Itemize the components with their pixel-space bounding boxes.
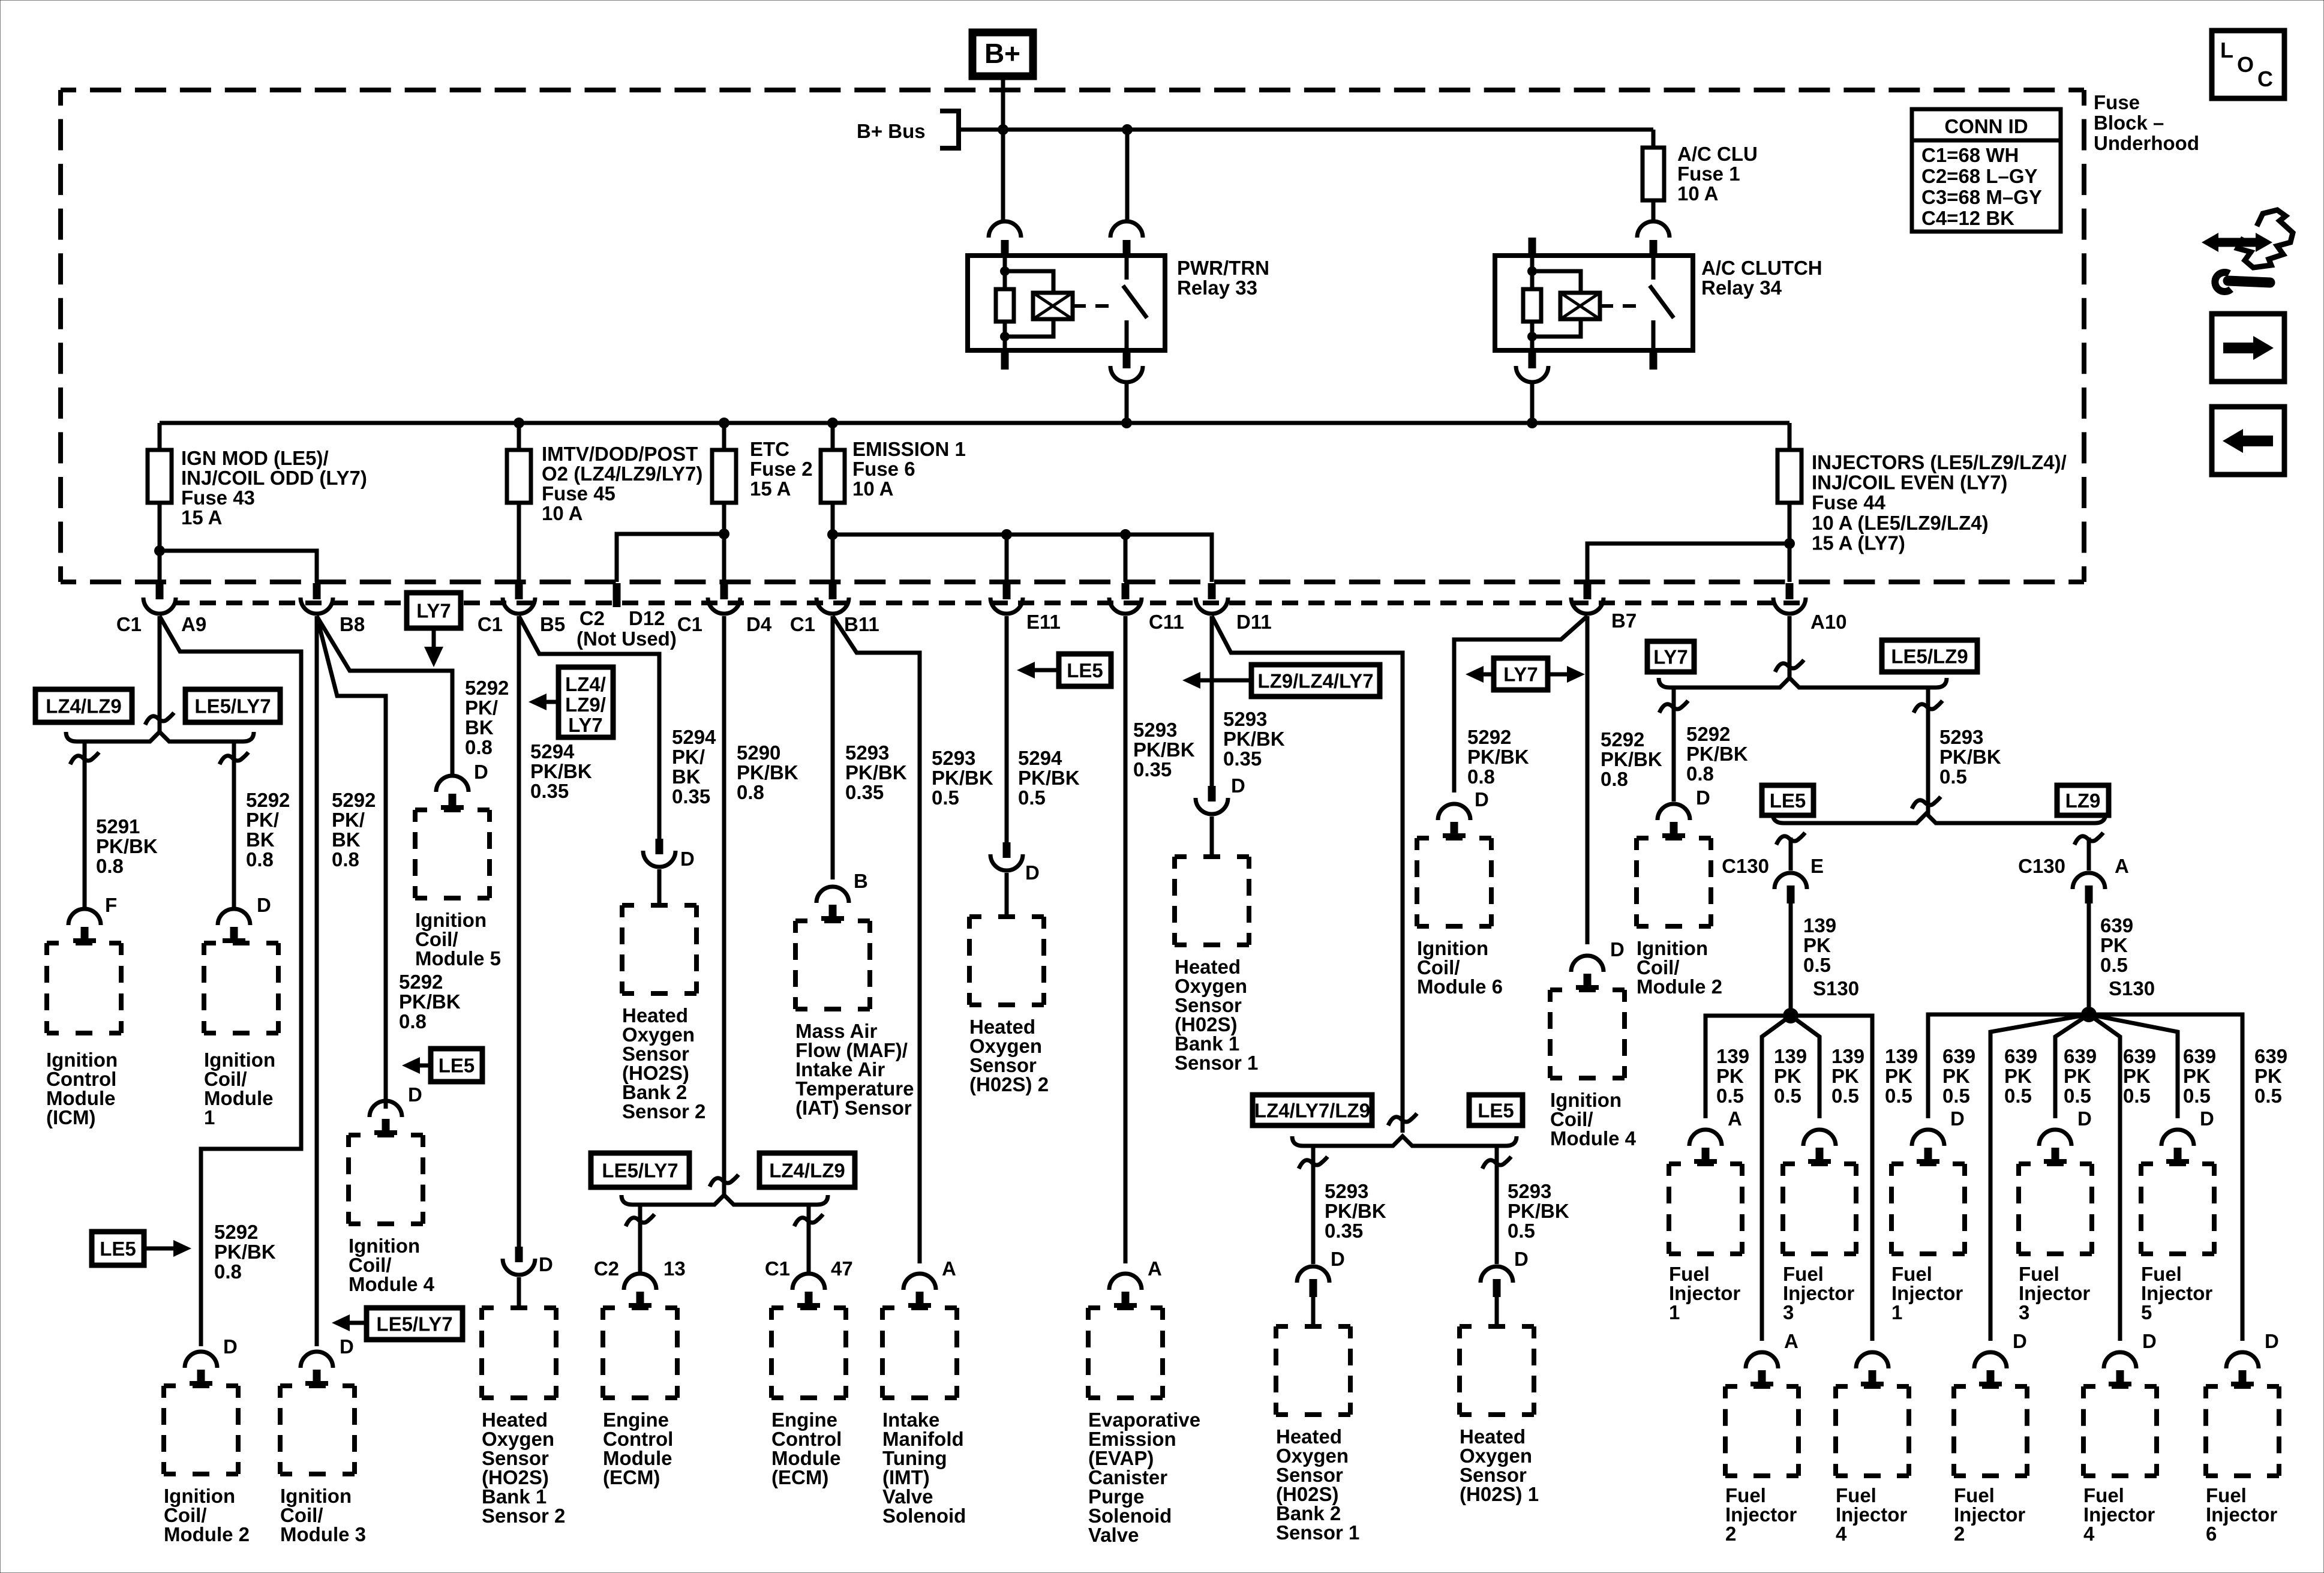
- svg-text:D12: D12: [629, 607, 665, 629]
- label: fuse 43: [181, 447, 367, 529]
- svg-text:A: A: [1784, 1330, 1798, 1352]
- junction: fuse 44 output: [1784, 538, 1795, 549]
- inline connector: HO2S 2 D: [990, 842, 1023, 917]
- wire: B8 to coil module 4 left: [317, 616, 386, 1109]
- svg-text:0.35: 0.35: [530, 780, 569, 802]
- svg-text:139: 139: [1831, 1045, 1864, 1067]
- component box: HO2S Bank 1 Sensor 1: [1175, 857, 1249, 945]
- svg-text:10 A: 10 A: [542, 502, 582, 524]
- label: Intake Manifold Tuning (IMT) Valve Solenoid: [882, 1409, 966, 1527]
- tag: LZ9/LZ4/LY7 arrow left: [1182, 665, 1380, 697]
- component: Fuel Injector 4 bottom row (LZ9 bank): [2083, 1330, 2157, 1545]
- relay 34 switch output stub: [1650, 352, 1658, 370]
- label: 639 PK 0.5 (inj1): [1942, 1045, 1975, 1107]
- label: Heated Oxygen Sensor (HO2S) Bank 2 Sensor 2: [622, 1004, 705, 1122]
- fuse block connector pin at x=528: [301, 583, 333, 614]
- wire: HO2S B2S1 branch: [1299, 1148, 1328, 1264]
- wire: B7 to coil module 4 right: [1586, 616, 1590, 944]
- label: Ignition Control Module (ICM): [46, 1049, 118, 1128]
- label: 639 PK 0.5 (inj6): [2254, 1045, 2287, 1107]
- svg-text:L: L: [2220, 38, 2233, 62]
- svg-text:0.5: 0.5: [2100, 954, 2128, 976]
- fuse block connector pin at x=1678: [990, 583, 1023, 614]
- svg-text:5293: 5293: [845, 742, 889, 764]
- svg-text:A: A: [2115, 855, 2129, 877]
- svg-text:B11: B11: [844, 613, 879, 635]
- brace: HO2S bank2/1 split: [1292, 1136, 1517, 1146]
- wire: splice right to fuel injector 1 (LZ9): [1928, 1014, 2089, 1118]
- label: S130 (right): [2109, 977, 2155, 999]
- inline connector: C130 E: [1774, 873, 1807, 1008]
- label: 5293 PK/BK 0.5 (injector feed): [1939, 726, 2001, 788]
- svg-text:LE5/LY7: LE5/LY7: [194, 695, 271, 718]
- label: pin D (H02S 1): [1514, 1248, 1529, 1270]
- svg-text:Module 6: Module 6: [1417, 975, 1503, 998]
- svg-text:D: D: [539, 1253, 553, 1275]
- svg-text:PK: PK: [2100, 934, 2128, 956]
- component box: HO2S 2: [969, 917, 1044, 1005]
- label: 639 PK 0.5 (inj4): [2123, 1045, 2156, 1107]
- svg-text:LE5: LE5: [439, 1055, 475, 1077]
- break: D11 branch wire: [1388, 1113, 1417, 1125]
- label: 5293 PK/BK 0.35 (C11): [1133, 719, 1195, 781]
- svg-text:Module 4: Module 4: [1550, 1127, 1637, 1149]
- label: C130 E: [1722, 855, 1824, 877]
- svg-text:0.5: 0.5: [1716, 1085, 1744, 1107]
- svg-text:C1: C1: [116, 613, 142, 635]
- fuse block connector pin at x=2983: [1773, 583, 1806, 614]
- svg-text:0.8: 0.8: [465, 736, 493, 758]
- wire: C130 A branch: [2074, 833, 2103, 870]
- svg-text:B8: B8: [340, 613, 365, 635]
- svg-text:PK/BK: PK/BK: [96, 835, 158, 857]
- svg-text:IGN MOD (LE5)/: IGN MOD (LE5)/: [181, 447, 329, 469]
- component pin: EVAP A: [1109, 1274, 1142, 1307]
- label: Ignition Coil/Module 1: [204, 1049, 275, 1128]
- connector stub D12 (not used): [613, 583, 621, 607]
- junction: fuse 2 output: [719, 529, 729, 539]
- svg-text:5292: 5292: [1467, 726, 1511, 748]
- svg-text:139: 139: [1803, 914, 1836, 936]
- component box: IMT valve solenoid: [882, 1308, 957, 1398]
- svg-text:S130: S130: [2109, 977, 2155, 999]
- label: S130 (left): [1813, 977, 1859, 999]
- junction: feed at relay 33 output: [1121, 418, 1132, 428]
- label: 5293 PK/BK 0.5 (H02S 1): [1508, 1180, 1569, 1242]
- label: 5292 PK/BK 0.8 (B7): [1601, 728, 1662, 790]
- svg-text:0.35: 0.35: [672, 785, 710, 807]
- inline connector: C130 A: [2073, 873, 2105, 1007]
- fuse block connector pin at x=266: [143, 583, 176, 614]
- tag: LZ4/LZ9 (ECM): [759, 1153, 855, 1187]
- component pin: coil module 2 right D: [1658, 804, 1690, 837]
- svg-text:5294: 5294: [1018, 747, 1062, 769]
- svg-text:LE5: LE5: [100, 1238, 136, 1260]
- svg-text:0.8: 0.8: [246, 848, 274, 870]
- svg-text:PK/BK: PK/BK: [530, 760, 592, 782]
- splice: S130 right: [2081, 1007, 2097, 1022]
- svg-text:INJECTORS (LE5/LZ9/LZ4)/: INJECTORS (LE5/LZ9/LZ4)/: [1812, 451, 2067, 473]
- svg-text:S130: S130: [1813, 977, 1859, 999]
- label: 5294 PK/ BK 0.35 (B2S2): [672, 726, 716, 807]
- svg-text:LE5/LY7: LE5/LY7: [376, 1313, 452, 1335]
- component box: Ignition Control Module (ICM): [47, 943, 121, 1033]
- tag: LE5 arrow left (E11): [1017, 654, 1111, 686]
- svg-text:C130: C130: [2018, 855, 2065, 877]
- junction: fuse 6 output: [827, 529, 838, 540]
- svg-text:5291: 5291: [96, 815, 140, 837]
- svg-text:(ICM): (ICM): [46, 1106, 95, 1128]
- svg-text:5292: 5292: [399, 971, 443, 993]
- svg-text:0.5: 0.5: [1774, 1085, 1801, 1107]
- relay 33 switch input connector: [1110, 221, 1143, 256]
- svg-text:PK: PK: [1774, 1065, 1801, 1087]
- svg-text:LY7: LY7: [1503, 664, 1538, 686]
- svg-text:0.5: 0.5: [1939, 766, 1967, 788]
- svg-text:15 A: 15 A: [750, 478, 791, 500]
- label: D11: [1236, 611, 1272, 633]
- svg-text:B+ Bus: B+ Bus: [857, 120, 926, 142]
- label: pin D (coil 3): [340, 1335, 354, 1358]
- label: Heated Oxygen Sensor (HO2S) Bank 1 Sensor 2: [482, 1409, 565, 1527]
- label: 5294 PK/BK 0.5 (E11): [1018, 747, 1080, 809]
- svg-text:Fuse 6: Fuse 6: [852, 458, 915, 480]
- component box: HO2S Bank 1 Sensor 2: [482, 1308, 556, 1398]
- svg-text:639: 639: [2123, 1045, 2156, 1067]
- label: 5293 PK/BK 0.35 (B2S1): [1325, 1180, 1386, 1242]
- svg-text:0.5: 0.5: [1831, 1085, 1859, 1107]
- wire: E11 to HO2S 2: [1005, 616, 1009, 843]
- svg-text:C: C: [2257, 67, 2273, 91]
- wire: ECM C1 branch: [794, 1205, 823, 1272]
- tag: LZ9 (injectors): [2057, 785, 2109, 815]
- label: fuse 2: [750, 438, 813, 500]
- svg-text:Solenoid: Solenoid: [882, 1505, 966, 1527]
- svg-text:PK/BK: PK/BK: [845, 761, 907, 784]
- svg-text:C1: C1: [478, 613, 503, 635]
- tag: LZ4/LZ9/LY7 arrow left: [529, 667, 613, 737]
- svg-text:PK/BK: PK/BK: [1018, 767, 1080, 789]
- svg-text:D: D: [2077, 1107, 2092, 1130]
- fuse 43 IGN MOD: [148, 423, 172, 551]
- label: Ignition Coil/Module 3: [280, 1485, 366, 1545]
- label: pin D (coil module 4 right): [1610, 938, 1625, 960]
- wire: B+ bus horizontal: [959, 128, 1653, 132]
- svg-text:D11: D11: [1236, 611, 1272, 633]
- svg-text:D: D: [474, 761, 488, 783]
- svg-text:47: 47: [831, 1257, 853, 1280]
- svg-text:C1: C1: [765, 1257, 790, 1280]
- component pin: MAF B: [816, 887, 849, 920]
- svg-text:5292: 5292: [214, 1221, 258, 1243]
- wire: C11 to EVAP: [1124, 616, 1128, 1263]
- svg-text:C11: C11: [1149, 611, 1184, 633]
- svg-text:LY7: LY7: [568, 714, 603, 736]
- wire: E11 drop: [1005, 535, 1009, 582]
- relay 34 coil input stub: [1529, 238, 1536, 256]
- wire: D11 branch to HO2S brace: [1212, 616, 1403, 1133]
- wire: D4 to ECM brace: [722, 616, 726, 1196]
- label: 5292 PK/ BK 0.8 (coil 5): [465, 677, 509, 758]
- relay box: PWR/TRN Relay 33: [968, 256, 1165, 350]
- svg-text:0.5: 0.5: [1018, 786, 1046, 809]
- svg-text:Sensor 1: Sensor 1: [1276, 1521, 1359, 1544]
- fuse 44 INJECTORS: [1777, 423, 1801, 582]
- svg-text:D: D: [1231, 775, 1245, 797]
- label: 639 PK 0.5 (inj2): [2004, 1045, 2037, 1107]
- component: Fuel Injector 5 (LZ9 bank): [2141, 1107, 2214, 1323]
- svg-text:139: 139: [1774, 1045, 1807, 1067]
- relay 34 solenoid coil (box-X) branch: [1532, 271, 1600, 337]
- svg-text:LE5: LE5: [1478, 1100, 1514, 1122]
- inline connector: HO2S 1 D: [1481, 1266, 1513, 1326]
- label: fuse 45: [542, 443, 702, 524]
- svg-text:PK: PK: [2004, 1065, 2032, 1087]
- fuse block connector pin at x=865: [503, 583, 535, 614]
- component box: Ignition Coil/Module 1: [204, 943, 278, 1033]
- svg-text:Fuse 1: Fuse 1: [1677, 163, 1740, 185]
- svg-text:PK/: PK/: [465, 697, 498, 719]
- wire: ICM branch: [70, 743, 99, 907]
- label: C1 47: [765, 1257, 853, 1280]
- label: pin F: [105, 894, 117, 916]
- svg-text:0.8: 0.8: [1686, 763, 1714, 785]
- svg-text:10 A: 10 A: [852, 478, 893, 500]
- fuse block connector pin at x=2646: [1571, 583, 1604, 614]
- svg-text:PK/: PK/: [672, 746, 705, 768]
- relay 34 switch input connector: [1637, 221, 1670, 256]
- splice: S130 left: [1783, 1008, 1798, 1023]
- wire: coil module 2 right branch: [1659, 689, 1688, 801]
- wire: splice left arm to fuel injector 1: [1706, 1016, 1791, 1118]
- component pin: coil module 4 left D: [370, 1101, 402, 1134]
- label: A10: [1810, 611, 1847, 633]
- svg-text:639: 639: [2183, 1045, 2216, 1067]
- tag: LE5 (HO2S brace): [1469, 1095, 1523, 1125]
- wire: splice to fuel injector 2 (LE5): [1762, 1016, 1791, 1341]
- component box: Ignition Coil/Module 6: [1417, 838, 1491, 926]
- frame: LOC reference box (top right): [2212, 31, 2284, 98]
- label: Ignition Coil/Module 2: [164, 1485, 250, 1545]
- svg-text:(H02S) 2: (H02S) 2: [969, 1073, 1049, 1095]
- component box: Ignition Coil/Module 4 (right): [1550, 990, 1625, 1078]
- svg-text:PK/BK: PK/BK: [1223, 728, 1285, 750]
- component: Fuel Injector 1 (LZ9 bank): [1891, 1107, 1965, 1323]
- wire: splice to fuel injector 3 (LE5): [1791, 1016, 1819, 1118]
- component box: Ignition Coil/Module 4 (left): [349, 1135, 423, 1224]
- svg-text:10 A: 10 A: [1677, 182, 1718, 205]
- relay 33 solenoid coil (box-X) branch: [1005, 271, 1073, 337]
- svg-text:BK: BK: [465, 716, 494, 739]
- brace: LE5/LZ9 injector split: [1773, 813, 2106, 823]
- svg-text:LZ9/: LZ9/: [565, 694, 606, 716]
- junction: feed at fuse 6: [827, 418, 838, 428]
- wire: HO2S 1 branch: [1482, 1148, 1511, 1264]
- svg-text:0.5: 0.5: [1885, 1085, 1912, 1107]
- wire: fuse6 branch to E11 C11 D11: [833, 535, 1212, 582]
- svg-text:5293: 5293: [1223, 708, 1267, 730]
- svg-text:639: 639: [2004, 1045, 2037, 1067]
- svg-text:PK/BK: PK/BK: [1325, 1200, 1386, 1222]
- wire: splice right to fuel injector 5 (LZ9): [2089, 1014, 2178, 1118]
- svg-text:EMISSION 1: EMISSION 1: [852, 438, 966, 460]
- label: pin D (coil 1): [257, 894, 271, 916]
- svg-text:PK/BK: PK/BK: [932, 767, 993, 789]
- svg-text:PK/BK: PK/BK: [1467, 746, 1529, 768]
- svg-text:3: 3: [1783, 1301, 1794, 1323]
- label: Engine Control Module (ECM) left: [603, 1409, 673, 1488]
- component box: Ignition Coil/Module 3: [280, 1386, 355, 1474]
- junction: feed at fuse 45: [514, 418, 524, 428]
- svg-text:0.5: 0.5: [2064, 1085, 2091, 1107]
- svg-text:D: D: [408, 1083, 422, 1106]
- svg-text:D: D: [257, 894, 271, 916]
- svg-text:1: 1: [204, 1106, 215, 1128]
- svg-text:B5: B5: [540, 613, 565, 635]
- label: C11: [1149, 611, 1184, 633]
- svg-text:Relay 34: Relay 34: [1701, 277, 1782, 299]
- component pin: coil module 4 right D: [1571, 956, 1604, 989]
- svg-text:5292: 5292: [465, 677, 509, 699]
- svg-text:5292: 5292: [246, 789, 290, 811]
- svg-text:0.8: 0.8: [214, 1260, 242, 1283]
- svg-text:139: 139: [1716, 1045, 1749, 1067]
- fuse: A/C CLU Fuse 1: [1643, 148, 1664, 200]
- svg-text:PK/: PK/: [246, 809, 279, 831]
- svg-text:LZ4/LY7/LZ9: LZ4/LY7/LZ9: [1254, 1100, 1370, 1122]
- wire: splice right to fuel injector 3 (LZ9): [2055, 1014, 2089, 1118]
- label: pin D (HO2S 2): [1025, 861, 1040, 884]
- junction: feed at fuse 2: [719, 418, 729, 428]
- fuse block connector pin at x=1388: [816, 583, 849, 614]
- wire: splice right to fuel injector 4 (LZ9): [2089, 1014, 2120, 1341]
- label: 5292 PK/ BK 0.8 (coil 3): [332, 789, 376, 870]
- svg-text:0.35: 0.35: [1133, 758, 1172, 781]
- label: 639 PK 0.5 (inj5): [2183, 1045, 2216, 1107]
- label: Ignition Coil/Module 4 (right): [1550, 1089, 1637, 1149]
- icon: wrench: [2215, 272, 2270, 292]
- svg-text:139: 139: [1885, 1045, 1918, 1067]
- label: pin D (coil 5): [474, 761, 488, 783]
- svg-text:2: 2: [1954, 1523, 1965, 1545]
- wire: B11 to MAF: [831, 616, 835, 879]
- wire: fuse2 branch to D12: [617, 534, 724, 582]
- tag: LE5 (injectors): [1762, 785, 1813, 815]
- wire: B+ down to bus and relay 33 coil: [1001, 79, 1005, 220]
- label: C130 A: [2018, 855, 2129, 877]
- svg-text:A/C CLU: A/C CLU: [1677, 143, 1758, 165]
- svg-text:Underhood: Underhood: [2094, 132, 2199, 154]
- svg-text:C4=12 BK: C4=12 BK: [1921, 207, 2014, 229]
- svg-text:0.5: 0.5: [2183, 1085, 2211, 1107]
- component box: HO2S Bank 2 Sensor 2: [622, 905, 696, 993]
- label: E11: [1026, 611, 1061, 633]
- wire: ECM C2 branch: [626, 1205, 654, 1272]
- svg-text:PK/: PK/: [332, 809, 365, 831]
- fuse block connector pin at x=2020: [1196, 583, 1228, 614]
- svg-text:LY7: LY7: [1653, 646, 1688, 668]
- label: pin A (IMT): [942, 1257, 956, 1280]
- relay 33 coil resistor: [996, 256, 1014, 350]
- relay 33 coil input connector: [989, 221, 1021, 256]
- label: 5293 PK/BK 0.35 (D11): [1223, 708, 1285, 770]
- svg-text:D: D: [1475, 788, 1489, 810]
- svg-text:C1=68 WH: C1=68 WH: [1921, 144, 2019, 166]
- wire: coil module 1 branch: [220, 743, 248, 907]
- label: Engine Control Module (ECM) right: [771, 1409, 842, 1488]
- label: 139 PK 0.5 (C130 E): [1803, 914, 1836, 976]
- label: pin D (coil module 2 right): [1696, 786, 1710, 809]
- svg-text:D: D: [1514, 1248, 1529, 1270]
- tag: LZ4/LZ9 (ICM): [35, 689, 132, 722]
- fuse 2 ETC: [712, 423, 736, 582]
- svg-text:IMTV/DOD/POST: IMTV/DOD/POST: [542, 443, 698, 465]
- svg-text:PK/BK: PK/BK: [737, 761, 798, 784]
- svg-text:C2=68 L–GY: C2=68 L–GY: [1921, 165, 2038, 187]
- label: C1 D4: [677, 613, 772, 635]
- svg-text:15 A (LY7): 15 A (LY7): [1812, 532, 1905, 554]
- svg-text:LY7: LY7: [416, 600, 451, 622]
- label: pin D (B2S1): [1331, 1248, 1345, 1270]
- relay box: A/C CLUTCH Relay 34: [1495, 256, 1693, 350]
- svg-text:0.5: 0.5: [1803, 954, 1831, 976]
- wire: B5 to HO2S bank2 sensor2: [519, 616, 659, 840]
- relay 33 coil output stub: [1001, 352, 1009, 370]
- component box: Ignition Coil/Module 5: [415, 810, 490, 898]
- svg-text:Sensor 2: Sensor 2: [622, 1100, 705, 1122]
- component box: MAF/IAT sensor: [795, 921, 870, 1009]
- svg-text:D: D: [1331, 1248, 1345, 1270]
- svg-text:0.35: 0.35: [1325, 1220, 1363, 1242]
- fuse 45 IMTV/DOD: [507, 423, 531, 582]
- label: 5292 PK/BK 0.8 (coil module 4 left): [399, 971, 461, 1032]
- tag: LZ4/LY7/LZ9: [1253, 1095, 1372, 1125]
- component: Fuel Injector 3 (LE5 bank): [1783, 1130, 1856, 1323]
- component box: HO2S 1: [1460, 1326, 1534, 1415]
- svg-text:Fuse 44: Fuse 44: [1812, 491, 1886, 514]
- wire: C11 drop: [1124, 535, 1128, 582]
- svg-text:CONN ID: CONN ID: [1944, 115, 2028, 137]
- tag: LE5 arrow left (coil module 4 left): [402, 1049, 482, 1082]
- svg-text:O2 (LZ4/LZ9/LY7): O2 (LZ4/LZ9/LY7): [542, 463, 702, 485]
- svg-text:BK: BK: [246, 828, 275, 851]
- relay 34 switch: [1650, 256, 1674, 350]
- label: 139 PK 0.5 (inj1): [1716, 1045, 1749, 1107]
- label: 639 PK 0.5 (inj3): [2064, 1045, 2097, 1107]
- label: Ignition Coil/Module 2 (right): [1637, 937, 1722, 998]
- svg-text:C2: C2: [580, 607, 605, 629]
- svg-text:0.8: 0.8: [332, 848, 359, 870]
- junction: B+ at bus: [998, 124, 1008, 135]
- inline connector: HO2S B1S1 D: [1196, 786, 1228, 857]
- break: A10 wire: [1775, 660, 1804, 672]
- tag: LY7 double arrow: [1466, 658, 1585, 690]
- component: Fuel Injector 6 bottom row (LZ9 bank): [2206, 1330, 2279, 1545]
- svg-text:0.8: 0.8: [737, 781, 764, 803]
- svg-text:C1: C1: [677, 613, 702, 635]
- component box: Engine Control Module (ECM) left: [603, 1308, 677, 1398]
- relay 34 coil output connector: [1516, 352, 1548, 423]
- svg-text:PK: PK: [1942, 1065, 1970, 1087]
- svg-text:LE5/LZ9: LE5/LZ9: [1891, 646, 1968, 668]
- label: Mass Air Flow (MAF)/ Intake Air Temperature (IAT) Sensor: [795, 1020, 914, 1119]
- junction: feed at relay 34 coil output: [1527, 418, 1538, 428]
- svg-text:D4: D4: [746, 613, 772, 635]
- svg-text:0.5: 0.5: [2123, 1085, 2151, 1107]
- tag: LE5/LZ9: [1882, 640, 1977, 672]
- svg-text:5290: 5290: [737, 742, 780, 764]
- component box: EVAP canister purge solenoid valve: [1088, 1308, 1163, 1398]
